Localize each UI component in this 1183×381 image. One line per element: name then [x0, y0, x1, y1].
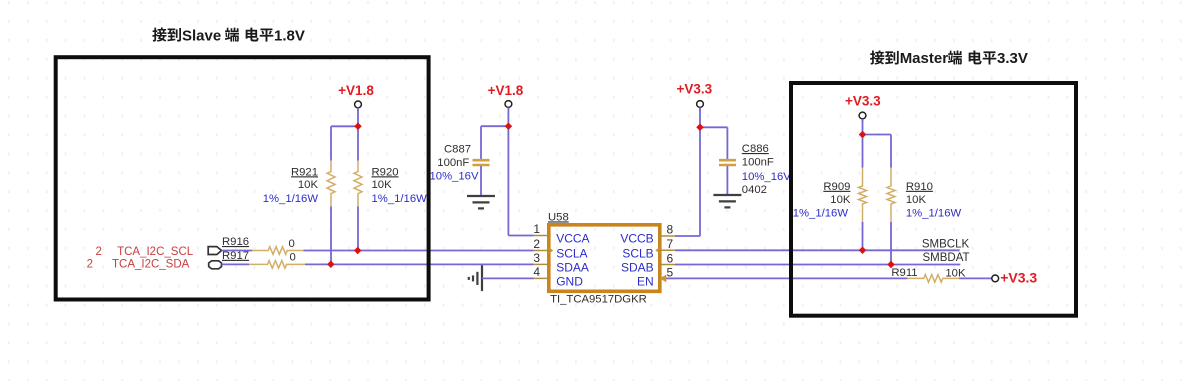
- SCLB chevron: [657, 247, 661, 253]
- svg-text:R909: R909: [823, 181, 850, 193]
- svg-text:1.8V: 1.8V: [274, 27, 305, 44]
- SCLA input chevron: [548, 248, 552, 254]
- svg-text:1%_1/16W: 1%_1/16W: [793, 208, 849, 220]
- wire V1.8 to pin1: [507, 126, 509, 235]
- ground (C886): [713, 194, 741, 196]
- svg-text:+V3.3: +V3.3: [676, 82, 712, 97]
- svg-text:SMBCLK: SMBCLK: [922, 238, 970, 250]
- port SCL (tag): [208, 247, 221, 255]
- resistor R917 row (SDA): [222, 263, 250, 265]
- svg-text:TCA_I2C_SCL: TCA_I2C_SCL: [117, 246, 194, 258]
- svg-text:0: 0: [290, 251, 296, 263]
- pin stub 1 (left): [534, 235, 549, 237]
- pin stub 4 (left): [534, 277, 549, 279]
- power +V3.3 terminal (C886): [699, 107, 701, 110]
- title left: 接到Slave 端 电平1.8V: [152, 27, 305, 44]
- resistor R916 row (SCL): [222, 250, 253, 252]
- svg-text:C886: C886: [742, 143, 769, 155]
- junction V1.8/C887: [505, 122, 513, 130]
- junction R921/SDA: [327, 260, 335, 268]
- svg-text:VCCA: VCCA: [556, 232, 589, 246]
- svg-text:+V3.3: +V3.3: [845, 94, 881, 109]
- svg-text:1: 1: [533, 222, 540, 236]
- wire SMBCLK row: [675, 249, 960, 251]
- svg-text:EN: EN: [637, 275, 654, 289]
- wire EN row: [666, 277, 907, 279]
- svg-text:TI_TCA9517DGKR: TI_TCA9517DGKR: [550, 294, 647, 306]
- wire to C886: [700, 126, 727, 128]
- svg-text:+V1.8: +V1.8: [488, 83, 524, 98]
- svg-text:SCLB: SCLB: [622, 247, 653, 261]
- svg-text:10K: 10K: [372, 179, 393, 191]
- svg-text:Slave: Slave: [182, 27, 221, 44]
- pin stub 8 (right): [658, 235, 675, 237]
- svg-text:10K: 10K: [830, 194, 851, 206]
- resistor R910: [890, 135, 892, 168]
- svg-text:10K: 10K: [298, 179, 319, 191]
- junction R910/SMBDAT: [887, 261, 895, 269]
- svg-text:6: 6: [667, 251, 674, 265]
- wire SCL row to pin2: [304, 250, 534, 252]
- resistor R920: [357, 126, 359, 160]
- svg-text:3.3V: 3.3V: [997, 50, 1028, 67]
- wire SMBDAT row: [675, 264, 960, 266]
- svg-text:+V3.3: +V3.3: [1000, 270, 1037, 286]
- svg-text:VCCB: VCCB: [620, 232, 653, 246]
- wire pin8 up: [675, 235, 700, 237]
- EN arrow: [660, 275, 667, 283]
- svg-text:100nF: 100nF: [437, 157, 469, 169]
- pin stub 5 (right): [658, 277, 675, 279]
- svg-text:U58: U58: [548, 211, 569, 223]
- wire junction horizontal to R921: [331, 125, 358, 127]
- svg-text:C887: C887: [444, 144, 471, 156]
- wire C887 to gnd: [480, 166, 482, 196]
- pin stub 7 (right): [658, 249, 675, 251]
- svg-text:TCA_I2C_SDA: TCA_I2C_SDA: [112, 258, 190, 270]
- svg-text:100nF: 100nF: [742, 157, 774, 169]
- svg-text:R911: R911: [891, 267, 917, 279]
- title right: 接到Master端 电平3.3V: [870, 50, 1028, 67]
- svg-text:2: 2: [96, 246, 102, 258]
- pin stub 2 (left): [534, 250, 549, 252]
- power +V3.3 terminal (right box): [862, 119, 864, 122]
- capacitor C887: [473, 159, 490, 162]
- capacitor C886: [719, 159, 736, 162]
- svg-text:3: 3: [533, 251, 540, 265]
- resistor R911: [907, 275, 959, 283]
- op IC U58 box: [549, 225, 660, 291]
- wire to C887: [481, 125, 508, 127]
- port SDA (octagon): [209, 261, 222, 269]
- junction R909/SMBCLK: [859, 247, 867, 255]
- ground (GND pin, rotated): [481, 265, 483, 291]
- svg-text:SDAB: SDAB: [621, 261, 654, 275]
- svg-text:R921: R921: [291, 166, 318, 178]
- terminal +V3.3 (R911): [991, 277, 993, 279]
- svg-text:1%_1/16W: 1%_1/16W: [263, 193, 319, 205]
- right group box: [791, 83, 1076, 316]
- svg-text:0402: 0402: [742, 184, 767, 196]
- svg-text:2: 2: [87, 258, 93, 270]
- svg-text:Master: Master: [900, 50, 949, 67]
- svg-text:10%_16V: 10%_16V: [742, 171, 791, 183]
- svg-text:+V1.8: +V1.8: [338, 83, 374, 98]
- svg-text:8: 8: [667, 223, 674, 237]
- resistor R921: [330, 126, 332, 160]
- pin stub 3 (left): [534, 263, 549, 265]
- svg-text:GND: GND: [556, 275, 583, 289]
- svg-text:R917: R917: [222, 250, 249, 262]
- svg-text:7: 7: [667, 237, 674, 251]
- svg-text:4: 4: [533, 265, 540, 279]
- junction V3.3: [859, 131, 867, 139]
- junction V3.3/C886: [696, 124, 704, 132]
- svg-text:SCLA: SCLA: [556, 247, 587, 261]
- wire V1.8 down to junction: [357, 108, 359, 127]
- wire C886 to gnd: [726, 166, 728, 195]
- svg-text:0: 0: [289, 238, 295, 250]
- wire gnd to pin4: [482, 277, 534, 279]
- svg-text:10%_16V: 10%_16V: [430, 171, 479, 183]
- ground (C887): [467, 195, 495, 197]
- svg-text:R920: R920: [372, 166, 399, 178]
- svg-text:R916: R916: [222, 236, 249, 248]
- left group box: [56, 57, 429, 299]
- svg-text:1%_1/16W: 1%_1/16W: [372, 193, 428, 205]
- svg-text:2: 2: [533, 237, 540, 251]
- resistor R909: [862, 135, 864, 168]
- svg-text:SDAA: SDAA: [556, 261, 589, 275]
- svg-text:R910: R910: [906, 181, 933, 193]
- svg-text:SMBDAT: SMBDAT: [923, 252, 970, 264]
- wire SDA row to pin3: [305, 263, 534, 265]
- junction R920/SCL: [354, 247, 362, 255]
- power +V1.8 terminal (C887): [507, 107, 509, 110]
- power +V1.8 terminal: [357, 108, 359, 111]
- pin stub 6 (right): [658, 264, 675, 266]
- svg-text:1%_1/16W: 1%_1/16W: [906, 208, 962, 220]
- svg-text:10K: 10K: [906, 194, 927, 206]
- junction V1.8: [354, 123, 362, 131]
